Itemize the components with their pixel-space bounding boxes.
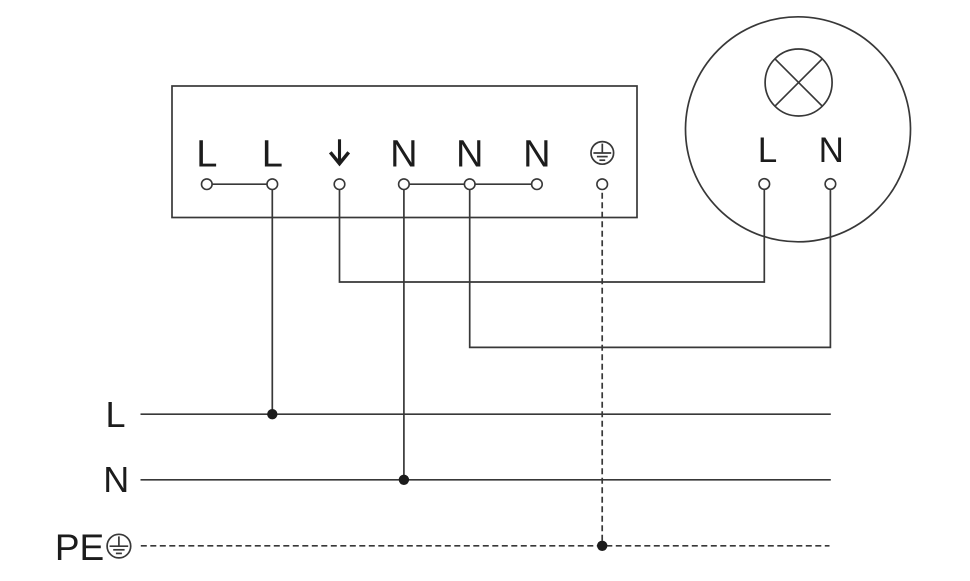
svg-text:L: L <box>105 394 125 435</box>
svg-text:N: N <box>456 133 483 175</box>
lamp terminal L circle <box>759 179 770 190</box>
terminal 2 circle <box>267 179 278 190</box>
svg-text:N: N <box>103 459 129 500</box>
PE earth symbol <box>107 534 131 558</box>
wire: dashed PE from terminal 7 down to PE bus <box>601 193 603 546</box>
earth symbol above terminal 7 <box>591 142 614 165</box>
lamp terminal N circle <box>825 179 836 190</box>
terminal 5 circle <box>464 179 475 190</box>
terminal 6 circle <box>532 179 543 190</box>
luminaire outline circle <box>686 17 911 242</box>
link wire between terminals L1 and L2 <box>207 183 272 185</box>
junction dot on PE bus <box>597 541 607 551</box>
svg-text:N: N <box>523 133 550 175</box>
svg-text:L: L <box>196 133 217 175</box>
wire: terminal 4 (N) down to N bus <box>403 189 405 480</box>
svg-text:L: L <box>758 131 777 170</box>
PE bus dashed line <box>141 545 830 547</box>
terminal 4 circle <box>399 179 410 190</box>
junction dot on N bus <box>399 475 409 485</box>
svg-text:L: L <box>262 133 283 175</box>
junction dot on L bus <box>267 409 277 419</box>
wire: arrow terminal to lamp L (down, right, up) <box>340 189 765 282</box>
link wire between terminals N1, N2, N3 <box>404 183 537 185</box>
terminal 3 circle <box>334 179 345 190</box>
arrow symbol (switched output, terminal 3) <box>330 139 348 163</box>
terminal 7 circle (PE) <box>597 179 608 190</box>
lamp symbol (circle with cross) <box>765 49 832 116</box>
terminal block box <box>172 86 637 218</box>
terminal 1 circle <box>202 179 213 190</box>
svg-text:N: N <box>390 133 417 175</box>
N bus line <box>141 479 831 481</box>
wire: terminal 2 (L) down to L bus <box>271 189 273 414</box>
svg-text:PE: PE <box>55 527 104 568</box>
svg-text:N: N <box>819 131 844 170</box>
wire: terminal 5 (N) to lamp N (down, right, up) <box>470 189 831 347</box>
L bus line <box>141 413 831 415</box>
